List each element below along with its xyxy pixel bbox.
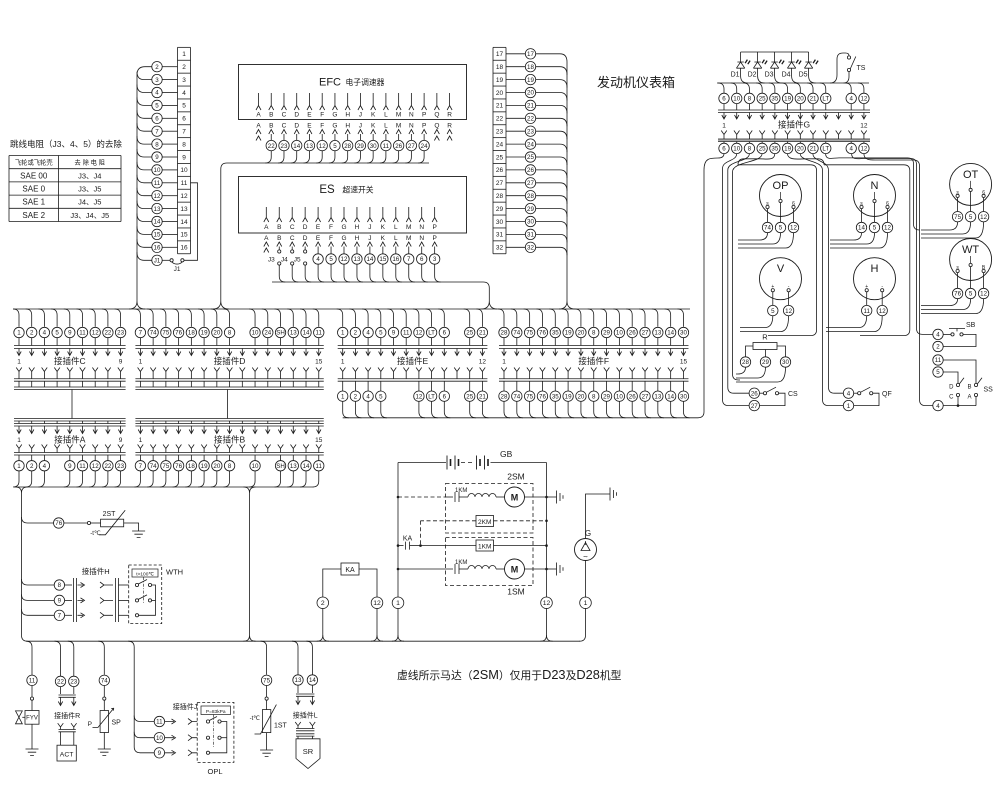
svg-text:M: M <box>406 224 411 231</box>
svg-text:24: 24 <box>264 330 271 337</box>
svg-text:74: 74 <box>150 330 157 337</box>
svg-text:5: 5 <box>969 214 973 221</box>
svg-text:75: 75 <box>263 678 270 685</box>
svg-text:R: R <box>762 333 768 342</box>
left trunk wire <box>129 67 152 309</box>
svg-text:4: 4 <box>847 390 851 397</box>
svg-text:SH: SH <box>276 463 285 470</box>
svg-text:27: 27 <box>496 180 504 187</box>
svg-text:19: 19 <box>201 463 208 470</box>
svg-text:4: 4 <box>849 146 853 153</box>
gauge H hour meter <box>854 258 896 300</box>
svg-text:D: D <box>294 112 299 119</box>
svg-text:14: 14 <box>303 463 310 470</box>
svg-text:28: 28 <box>496 193 504 200</box>
svg-text:2: 2 <box>155 64 159 71</box>
svg-text:11: 11 <box>79 330 86 337</box>
svg-text:4: 4 <box>366 393 370 400</box>
svg-text:19: 19 <box>784 146 791 153</box>
svg-text:9: 9 <box>119 359 123 366</box>
terminal circles 2,12,1,12,1 <box>317 597 329 609</box>
svg-text:跳线电阻（J3、4、5）的去除: 跳线电阻（J3、4、5）的去除 <box>10 139 122 149</box>
svg-text:12: 12 <box>415 393 422 400</box>
svg-text:H: H <box>345 112 350 119</box>
svg-text:5: 5 <box>55 330 59 337</box>
svg-text:OT: OT <box>963 169 979 181</box>
svg-text:30: 30 <box>680 393 687 400</box>
svg-text:8: 8 <box>182 141 186 148</box>
svg-text:28: 28 <box>501 393 508 400</box>
svg-text:虚线所示马达（2SM）仅用于D23及D28机型: 虚线所示马达（2SM）仅用于D23及D28机型 <box>397 667 622 682</box>
svg-text:Q: Q <box>434 112 439 119</box>
svg-text:5: 5 <box>873 225 877 232</box>
svg-text:8: 8 <box>58 582 62 589</box>
connector J and oil pressure switch OPL <box>128 641 154 753</box>
connector L and sensor SR <box>292 641 298 675</box>
svg-text:6: 6 <box>182 116 186 123</box>
ES bus wire <box>272 282 497 309</box>
svg-text:35: 35 <box>552 330 559 337</box>
push button SB <box>933 329 943 339</box>
svg-text:22: 22 <box>496 116 504 123</box>
svg-text:9: 9 <box>392 330 396 337</box>
svg-text:12: 12 <box>341 256 348 263</box>
svg-text:14: 14 <box>858 225 865 232</box>
svg-text:5: 5 <box>771 308 775 315</box>
svg-text:75: 75 <box>526 393 533 400</box>
svg-text:P: P <box>422 123 426 130</box>
svg-text:9: 9 <box>182 154 186 161</box>
svg-text:20: 20 <box>577 393 584 400</box>
instrument feed wire <box>717 82 869 84</box>
svg-text:+: + <box>771 284 774 290</box>
svg-text:35: 35 <box>771 146 778 153</box>
svg-text:74: 74 <box>101 678 108 685</box>
svg-text:J1: J1 <box>174 266 181 273</box>
svg-text:Q: Q <box>434 123 439 130</box>
svg-text:24: 24 <box>527 141 534 148</box>
svg-text:D: D <box>949 385 954 391</box>
svg-text:31: 31 <box>496 232 504 239</box>
svg-text:飞轮或飞轮壳: 飞轮或飞轮壳 <box>15 157 53 166</box>
svg-text:E: E <box>307 112 312 119</box>
svg-text:7: 7 <box>407 256 411 263</box>
instrument wiring verticals <box>723 154 750 406</box>
svg-text:J1: J1 <box>154 258 161 265</box>
alternator G <box>575 539 597 561</box>
svg-text:12: 12 <box>860 146 867 153</box>
svg-text:A: A <box>256 123 261 130</box>
svg-text:M: M <box>511 565 519 575</box>
svg-text:21: 21 <box>527 103 534 110</box>
svg-text:23: 23 <box>281 143 288 150</box>
svg-text:10: 10 <box>252 463 259 470</box>
svg-text:L: L <box>384 123 388 130</box>
svg-text:B: B <box>967 385 971 391</box>
svg-text:FYV: FYV <box>26 716 38 722</box>
svg-text:35: 35 <box>771 96 778 103</box>
svg-text:25: 25 <box>759 146 766 153</box>
svg-text:5: 5 <box>379 330 383 337</box>
svg-text:N: N <box>419 224 424 231</box>
svg-text:超速开关: 超速开关 <box>342 185 373 195</box>
svg-text:C: C <box>290 235 295 242</box>
svg-text:7: 7 <box>58 613 62 620</box>
svg-text:21: 21 <box>496 103 504 110</box>
connector G <box>719 93 729 103</box>
svg-text:12: 12 <box>860 96 867 103</box>
svg-text:L: L <box>384 112 388 119</box>
svg-text:2: 2 <box>30 330 34 337</box>
svg-text:6: 6 <box>443 393 447 400</box>
svg-text:接插件E: 接插件E <box>397 356 429 366</box>
svg-text:4: 4 <box>43 463 47 470</box>
svg-text:M: M <box>396 112 401 119</box>
svg-text:11: 11 <box>181 180 188 187</box>
svg-text:21: 21 <box>479 330 486 337</box>
svg-text:11: 11 <box>863 308 870 315</box>
svg-text:P: P <box>88 721 92 728</box>
svg-text:27: 27 <box>642 330 649 337</box>
svg-text:K: K <box>381 224 386 231</box>
svg-text:12: 12 <box>373 600 381 607</box>
svg-text:29: 29 <box>603 330 610 337</box>
svg-text:D1: D1 <box>731 72 740 79</box>
svg-text:18: 18 <box>527 64 534 71</box>
svg-text:接插件J: 接插件J <box>173 702 198 711</box>
svg-text:16: 16 <box>392 256 399 263</box>
switch CS <box>749 388 759 398</box>
svg-text:14: 14 <box>293 143 300 150</box>
svg-text:9: 9 <box>158 750 162 757</box>
svg-text:8: 8 <box>228 463 232 470</box>
thermo sensor 1ST <box>261 641 267 675</box>
battery positive lead <box>397 463 399 598</box>
svg-text:11: 11 <box>935 357 942 364</box>
svg-text:B: B <box>269 123 273 130</box>
connector C <box>13 309 19 327</box>
svg-text:D4: D4 <box>782 72 791 79</box>
svg-text:C: C <box>282 112 287 119</box>
svg-text:19: 19 <box>565 330 572 337</box>
svg-text:76: 76 <box>954 291 961 298</box>
svg-text:WT: WT <box>962 244 979 256</box>
svg-text:OPL: OPL <box>207 767 222 776</box>
svg-text:23: 23 <box>117 463 124 470</box>
terminal strip 1-16 with wire circles <box>177 47 179 253</box>
svg-text:8: 8 <box>748 146 752 153</box>
svg-text:13: 13 <box>180 206 188 213</box>
svg-text:4: 4 <box>182 90 186 97</box>
svg-text:3: 3 <box>155 77 159 84</box>
svg-text:R: R <box>447 112 452 119</box>
svg-text:10: 10 <box>733 96 740 103</box>
svg-text:接插件H: 接插件H <box>82 566 110 576</box>
connector E <box>337 309 343 327</box>
svg-text:4: 4 <box>849 96 853 103</box>
svg-text:25: 25 <box>466 330 473 337</box>
svg-text:~: ~ <box>583 553 588 562</box>
svg-text:2SM: 2SM <box>507 472 524 482</box>
svg-text:N: N <box>419 235 424 242</box>
svg-text:22: 22 <box>57 679 64 686</box>
svg-text:74: 74 <box>513 393 520 400</box>
svg-text:C: C <box>949 395 954 401</box>
svg-text:28: 28 <box>742 359 749 366</box>
connector D <box>134 309 140 327</box>
svg-text:8: 8 <box>228 330 232 337</box>
E/F lower bus rising to instrument panel <box>343 154 724 418</box>
svg-text:D: D <box>303 235 308 242</box>
svg-text:1: 1 <box>139 437 143 444</box>
svg-text:D2: D2 <box>748 72 757 79</box>
svg-text:14: 14 <box>180 219 188 226</box>
svg-text:5: 5 <box>329 256 333 263</box>
right trunk wire to bus <box>536 54 575 309</box>
svg-text:13: 13 <box>290 330 297 337</box>
pressure sensor SP <box>98 641 104 675</box>
svg-text:V: V <box>777 263 785 275</box>
svg-text:1: 1 <box>139 359 143 366</box>
svg-text:4: 4 <box>43 330 47 337</box>
svg-text:5: 5 <box>779 225 783 232</box>
svg-text:13: 13 <box>290 463 297 470</box>
svg-text:12: 12 <box>319 143 326 150</box>
svg-text:25: 25 <box>496 154 504 161</box>
svg-text:C: C <box>282 123 287 130</box>
connector F lower pins <box>503 381 505 391</box>
svg-text:SP: SP <box>112 720 122 727</box>
svg-text:10: 10 <box>154 167 161 174</box>
connector A <box>14 418 126 420</box>
svg-text:75: 75 <box>162 330 169 337</box>
svg-text:J3、J5: J3、J5 <box>78 185 101 194</box>
svg-text:5: 5 <box>155 103 159 110</box>
svg-text:1: 1 <box>502 359 506 366</box>
svg-text:20: 20 <box>797 96 804 103</box>
svg-text:电子调速器: 电子调速器 <box>346 77 385 87</box>
relay KA with leads <box>341 563 359 575</box>
OT pin return wires <box>921 222 958 230</box>
svg-text:7: 7 <box>139 330 143 337</box>
svg-text:12: 12 <box>884 225 891 232</box>
svg-text:15: 15 <box>315 359 323 366</box>
svg-text:G: G <box>341 224 346 231</box>
svg-text:J4: J4 <box>281 257 288 264</box>
svg-text:2ST: 2ST <box>103 511 117 518</box>
svg-text:P=83kPa: P=83kPa <box>206 709 226 715</box>
svg-text:R: R <box>447 123 452 130</box>
terminal strip 17-32 with wire circles <box>492 47 494 253</box>
svg-text:H: H <box>871 263 879 275</box>
relay coil 1KM <box>476 540 494 551</box>
svg-text:13: 13 <box>154 206 161 213</box>
svg-text:29: 29 <box>762 359 769 366</box>
svg-text:1KM: 1KM <box>455 560 467 566</box>
svg-text:15: 15 <box>315 437 323 444</box>
svg-text:19: 19 <box>784 96 791 103</box>
svg-text:23: 23 <box>70 679 77 686</box>
svg-text:20: 20 <box>213 463 220 470</box>
svg-text:17: 17 <box>527 51 534 58</box>
svg-text:4: 4 <box>316 256 320 263</box>
svg-text:28: 28 <box>344 143 351 150</box>
svg-text:G: G <box>332 123 337 130</box>
svg-text:6: 6 <box>886 201 889 207</box>
svg-text:26: 26 <box>751 390 758 397</box>
svg-text:6: 6 <box>982 190 985 196</box>
svg-text:20: 20 <box>213 330 220 337</box>
svg-text:23: 23 <box>117 330 124 337</box>
svg-text:12: 12 <box>790 225 797 232</box>
svg-text:75: 75 <box>162 463 169 470</box>
svg-text:26: 26 <box>629 393 636 400</box>
harness link C to A <box>71 390 73 419</box>
svg-text:SAE 2: SAE 2 <box>22 211 45 220</box>
svg-text:-t℃: -t℃ <box>90 531 101 537</box>
gauge V voltmeter <box>760 258 802 300</box>
svg-text:15: 15 <box>680 359 688 366</box>
svg-text:6: 6 <box>443 330 447 337</box>
svg-text:22: 22 <box>104 463 111 470</box>
gauge OT oil temperature <box>950 163 992 205</box>
svg-text:22: 22 <box>268 143 275 150</box>
svg-text:J3、J4: J3、J4 <box>78 171 101 180</box>
svg-text:SH: SH <box>276 330 285 337</box>
svg-text:10: 10 <box>733 146 740 153</box>
svg-text:10: 10 <box>252 330 259 337</box>
selector switch SS <box>933 355 943 365</box>
svg-text:15: 15 <box>180 232 188 239</box>
svg-text:ACT: ACT <box>60 752 74 759</box>
svg-text:22: 22 <box>104 330 111 337</box>
svg-text:D3: D3 <box>765 72 774 79</box>
svg-text:15: 15 <box>154 232 161 239</box>
svg-text:13: 13 <box>354 256 361 263</box>
H pin return wires <box>826 316 867 328</box>
svg-text:D5: D5 <box>799 72 808 79</box>
svg-text:SS: SS <box>984 387 994 394</box>
starter 2SM dashed box <box>446 484 534 534</box>
EFC electronic governor box <box>239 65 467 120</box>
svg-text:17: 17 <box>496 51 504 58</box>
svg-text:25: 25 <box>759 96 766 103</box>
svg-text:12: 12 <box>980 214 987 221</box>
svg-text:21: 21 <box>810 96 817 103</box>
svg-text:5: 5 <box>379 393 383 400</box>
svg-text:1: 1 <box>17 359 21 366</box>
svg-text:G: G <box>341 235 346 242</box>
svg-text:18: 18 <box>188 463 195 470</box>
svg-text:+: + <box>865 284 868 290</box>
svg-text:1: 1 <box>17 463 21 470</box>
gauge WT water temperature <box>950 239 992 281</box>
connector B <box>135 418 323 420</box>
svg-text:11: 11 <box>316 463 323 470</box>
svg-text:J3、J4、J5: J3、J4、J5 <box>70 211 109 220</box>
svg-text:1KM: 1KM <box>455 488 467 494</box>
svg-text:F: F <box>320 112 324 119</box>
svg-text:N: N <box>409 112 414 119</box>
svg-text:SAE 0: SAE 0 <box>22 185 45 194</box>
svg-text:12: 12 <box>980 291 987 298</box>
svg-text:J: J <box>368 224 371 231</box>
svg-text:SAE 00: SAE 00 <box>20 171 48 180</box>
svg-text:接插件B: 接插件B <box>214 435 246 445</box>
svg-text:25: 25 <box>466 393 473 400</box>
EFC bus wire <box>213 163 429 309</box>
svg-text:74: 74 <box>150 463 157 470</box>
svg-text:1: 1 <box>341 359 345 366</box>
svg-text:74: 74 <box>513 330 520 337</box>
svg-text:13: 13 <box>306 143 313 150</box>
svg-text:B: B <box>277 224 281 231</box>
svg-text:N: N <box>871 180 879 192</box>
svg-text:76: 76 <box>175 463 182 470</box>
relay coil 2KM <box>476 516 494 527</box>
svg-text:26: 26 <box>395 143 402 150</box>
svg-text:1KM: 1KM <box>478 544 491 551</box>
svg-text:13: 13 <box>295 677 302 684</box>
svg-text:3: 3 <box>433 256 437 263</box>
svg-text:12: 12 <box>879 308 886 315</box>
svg-text:5: 5 <box>936 369 940 376</box>
ES idle speed switch box <box>239 177 467 234</box>
svg-text:14: 14 <box>303 330 310 337</box>
thermo switch 2ST <box>22 517 54 523</box>
svg-text:2KM: 2KM <box>478 519 491 526</box>
svg-text:74: 74 <box>764 225 771 232</box>
svg-text:12: 12 <box>180 193 188 200</box>
svg-text:10: 10 <box>180 167 188 174</box>
svg-text:2: 2 <box>354 330 358 337</box>
svg-text:J4、J5: J4、J5 <box>78 198 101 207</box>
svg-text:6: 6 <box>792 201 795 207</box>
gauge N tachometer <box>854 175 896 217</box>
svg-text:75: 75 <box>526 330 533 337</box>
svg-text:9: 9 <box>58 598 62 605</box>
svg-text:26: 26 <box>496 167 504 174</box>
svg-text:B: B <box>277 235 281 242</box>
svg-text:2: 2 <box>321 600 325 607</box>
svg-text:14: 14 <box>309 677 316 684</box>
svg-text:13: 13 <box>654 330 661 337</box>
svg-text:-t℃: -t℃ <box>250 716 261 722</box>
svg-text:30: 30 <box>496 219 504 226</box>
jumper J1 <box>152 255 162 265</box>
svg-text:3: 3 <box>182 77 186 84</box>
svg-text:20: 20 <box>527 90 534 97</box>
svg-text:76: 76 <box>175 330 182 337</box>
svg-text:14: 14 <box>667 393 674 400</box>
A/B lower bus ring <box>14 486 314 488</box>
svg-text:OP: OP <box>773 180 789 192</box>
svg-text:20: 20 <box>577 330 584 337</box>
svg-text:M: M <box>396 123 401 130</box>
bottom distribution bus <box>28 640 581 642</box>
svg-text:A: A <box>264 235 269 242</box>
svg-text:9: 9 <box>155 154 159 161</box>
svg-text:J: J <box>359 112 362 119</box>
svg-text:76: 76 <box>55 520 62 527</box>
svg-text:1: 1 <box>584 600 588 607</box>
svg-text:13: 13 <box>654 393 661 400</box>
svg-text:10: 10 <box>156 735 163 742</box>
battery GB <box>398 462 446 464</box>
svg-text:35: 35 <box>552 393 559 400</box>
svg-text:30: 30 <box>680 330 687 337</box>
svg-text:9: 9 <box>68 330 72 337</box>
